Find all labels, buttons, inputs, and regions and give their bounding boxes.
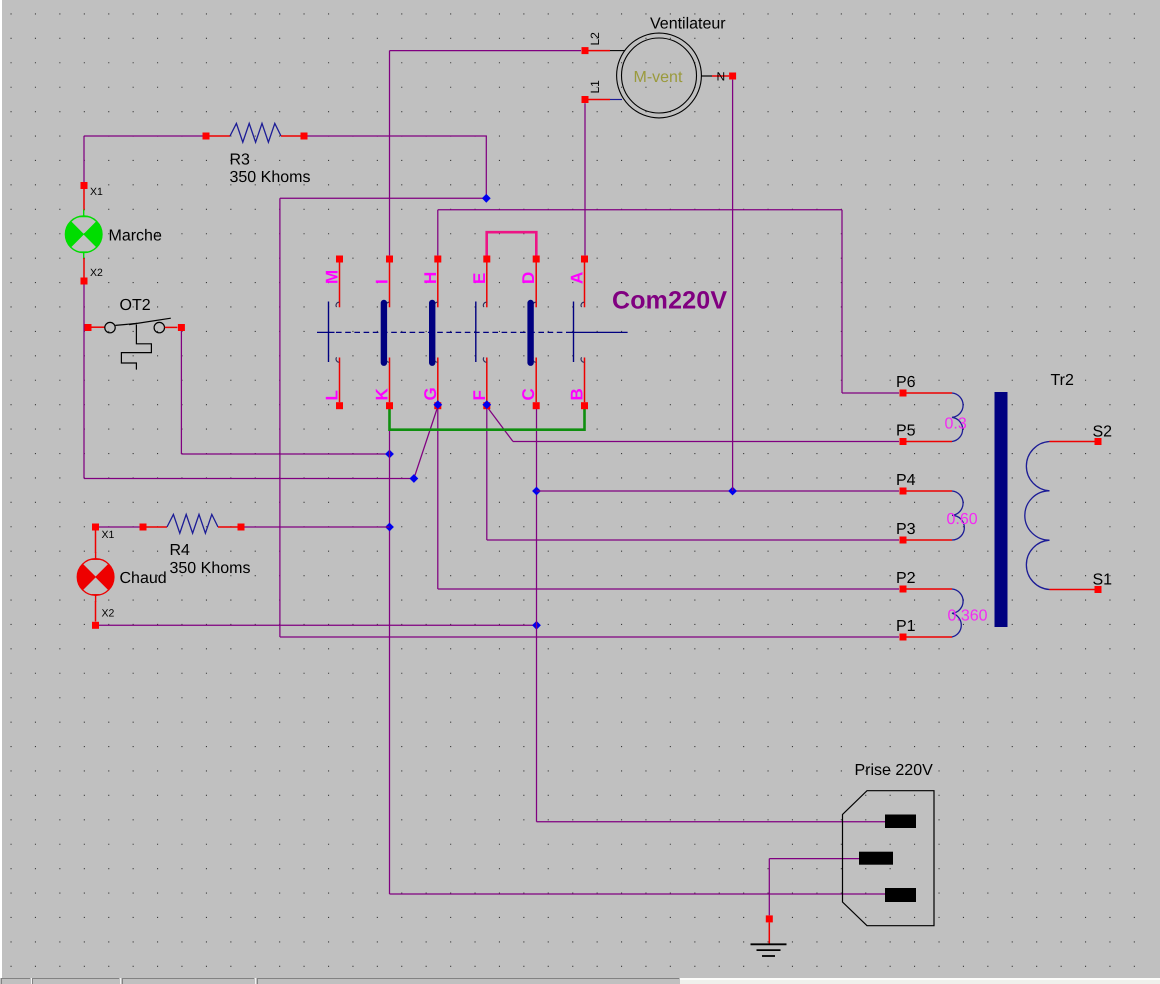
wire to P6: [842, 392, 899, 394]
wire R3 right to corner: [307, 135, 487, 137]
svg-text:A: A: [568, 272, 587, 284]
lamp Chaud: [77, 552, 114, 602]
wire L2 horizontal: [390, 50, 582, 52]
wire to G diagonal node: [84, 478, 414, 480]
resistor R4: [140, 514, 245, 533]
thermal switch OT2: [85, 318, 185, 369]
svg-text:C: C: [519, 388, 538, 400]
resistor R3: [203, 123, 308, 142]
wire earth drop: [768, 859, 770, 916]
svg-text:P2: P2: [896, 570, 916, 587]
terminal L2: [582, 47, 625, 54]
wire node to left at y=198: [280, 197, 486, 199]
svg-text:X1: X1: [90, 186, 103, 198]
terminal X2 Chaud: [92, 622, 99, 629]
svg-text:M-vent: M-vent: [634, 69, 683, 86]
svg-text:X2: X2: [90, 267, 103, 279]
wire H to right y=210: [438, 209, 842, 211]
node OT2/K junction: [385, 450, 394, 459]
terminal X1 Chaud: [92, 524, 99, 531]
terminal X2 Marche: [81, 278, 88, 285]
wire K long vertical: [389, 406, 391, 894]
svg-text:Com220V: Com220V: [612, 287, 727, 315]
svg-text:P5: P5: [896, 423, 916, 440]
switch contact D/C: [531, 256, 540, 410]
wire Prise middle pin: [769, 858, 861, 860]
wire N vertical: [732, 80, 734, 491]
svg-text:350 Khoms: 350 Khoms: [170, 560, 251, 577]
svg-text:R4: R4: [170, 542, 191, 559]
switch contact E/F: [476, 256, 491, 410]
svg-text:0.360: 0.360: [948, 608, 988, 625]
lead X1 Chaud: [95, 531, 97, 554]
svg-text:P4: P4: [896, 472, 916, 489]
terminal earth: [766, 915, 773, 922]
svg-text:0.60: 0.60: [947, 511, 978, 528]
ground: [751, 944, 787, 956]
svg-text:M: M: [323, 270, 342, 284]
svg-text:B: B: [568, 388, 587, 400]
wire vertical x=842: [841, 210, 843, 393]
node R4/K junction: [385, 523, 394, 532]
wire C to Prise top pin: [537, 821, 889, 823]
node G junction: [433, 400, 442, 409]
wire y=491 to P4: [537, 490, 900, 492]
wire long vertical x=280: [279, 198, 281, 637]
svg-text:P6: P6: [896, 374, 916, 391]
switch contact M/L: [329, 256, 344, 410]
wire G to P2: [438, 588, 899, 590]
wire Marche X2 down: [83, 285, 85, 479]
svg-text:Marche: Marche: [109, 228, 162, 245]
svg-text:Tr2: Tr2: [1051, 372, 1075, 389]
svg-text:P3: P3: [896, 521, 916, 538]
wire vertical R3 to node: [485, 136, 487, 198]
lead to ground: [768, 922, 770, 944]
svg-text:G: G: [421, 387, 440, 400]
wire Chaud X2 horizontal: [96, 624, 537, 626]
wire K to Prise bottom pin: [390, 893, 889, 895]
lamp Marche: [65, 210, 102, 260]
wire green K-B bridge: [390, 406, 585, 430]
svg-text:P1: P1: [896, 618, 916, 635]
lead X2 Marche: [83, 258, 85, 278]
svg-text:N: N: [717, 70, 726, 84]
wire to P5: [513, 441, 899, 443]
connector Prise 220V: [843, 791, 935, 926]
wire F to P3: [487, 539, 899, 541]
wire diagonal node to G: [414, 407, 438, 479]
terminal N: [701, 73, 736, 80]
wire R3 left horizontal: [84, 135, 203, 137]
wire pink E-D bridge: [487, 232, 537, 255]
node N/P4 junction: [728, 487, 737, 496]
node R3/E junction: [482, 194, 491, 203]
secondary winding S2-S1: [1025, 438, 1102, 593]
lead X2 Chaud: [95, 601, 97, 622]
switch contact H/G: [432, 256, 441, 410]
wire OT2 to K vertical: [181, 453, 389, 455]
svg-text:350 Khoms: 350 Khoms: [230, 169, 311, 186]
svg-text:L2: L2: [588, 32, 602, 46]
motor M-vent: [617, 33, 702, 118]
wire Marche X1 drop: [83, 136, 85, 182]
svg-text:OT2: OT2: [120, 297, 151, 314]
primary winding P2-P1: [900, 586, 964, 641]
terminal L1: [582, 96, 623, 103]
transformer core Tr2: [995, 392, 1008, 627]
svg-text:X1: X1: [102, 529, 115, 541]
node at (414,478): [410, 474, 419, 483]
svg-text:D: D: [519, 272, 538, 284]
wire to P1: [280, 636, 899, 638]
svg-text:L: L: [323, 390, 342, 400]
svg-text:H: H: [421, 272, 440, 284]
svg-text:0.3: 0.3: [945, 416, 967, 433]
node F junction: [482, 400, 491, 409]
wire I up vertical: [389, 51, 391, 256]
wire OT2 down: [180, 331, 182, 455]
primary winding P6-P5: [900, 390, 964, 446]
svg-text:F: F: [470, 390, 489, 400]
svg-text:Ventilateur: Ventilateur: [650, 16, 726, 33]
primary winding P4-P3: [900, 488, 965, 544]
svg-text:Prise 220V: Prise 220V: [855, 762, 934, 779]
wire H up vertical: [437, 210, 439, 256]
node C/P4 junction: [532, 487, 541, 496]
svg-text:I: I: [373, 279, 392, 284]
wire F vertical: [486, 406, 488, 540]
svg-text:X2: X2: [102, 608, 115, 620]
switch contact A/B: [574, 256, 589, 410]
terminal X1 Marche: [81, 182, 88, 189]
svg-text:R3: R3: [230, 152, 251, 169]
wire Chaud X1 to R4: [98, 526, 140, 528]
svg-text:K: K: [373, 388, 392, 401]
node Chaud/C junction: [532, 621, 541, 630]
svg-text:S1: S1: [1093, 572, 1113, 589]
wire R4 right to K vertical: [244, 526, 390, 528]
wire L1 to A vertical: [584, 103, 586, 255]
wire C long vertical: [536, 406, 538, 822]
svg-text:E: E: [470, 273, 489, 284]
svg-text:S2: S2: [1093, 424, 1113, 441]
wire G vertical: [437, 406, 439, 589]
svg-text:L1: L1: [588, 80, 602, 94]
switch contact I/K: [384, 256, 393, 410]
wire F diagonal: [487, 407, 513, 442]
dashed actuator line: [317, 331, 628, 333]
svg-text:Chaud: Chaud: [120, 570, 167, 587]
